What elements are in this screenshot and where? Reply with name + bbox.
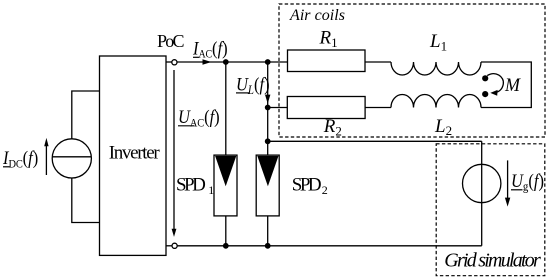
svg-text:1: 1 [208,183,214,197]
svg-text:SPD: SPD [292,174,322,195]
svg-text:R2: R2 [323,116,342,138]
svg-text:PoC: PoC [157,31,185,51]
svg-text:R1: R1 [319,28,338,50]
svg-text:L1: L1 [429,31,447,53]
svg-text:Grid simulator: Grid simulator [444,250,541,272]
svg-text:Air coils: Air coils [289,7,345,24]
svg-text:UL(f): UL(f) [236,74,270,98]
svg-text:Inverter: Inverter [109,142,161,163]
svg-text:2: 2 [322,183,328,197]
svg-text:L2: L2 [434,116,452,138]
svg-text:M: M [504,76,522,96]
svg-text:SPD: SPD [176,174,206,195]
